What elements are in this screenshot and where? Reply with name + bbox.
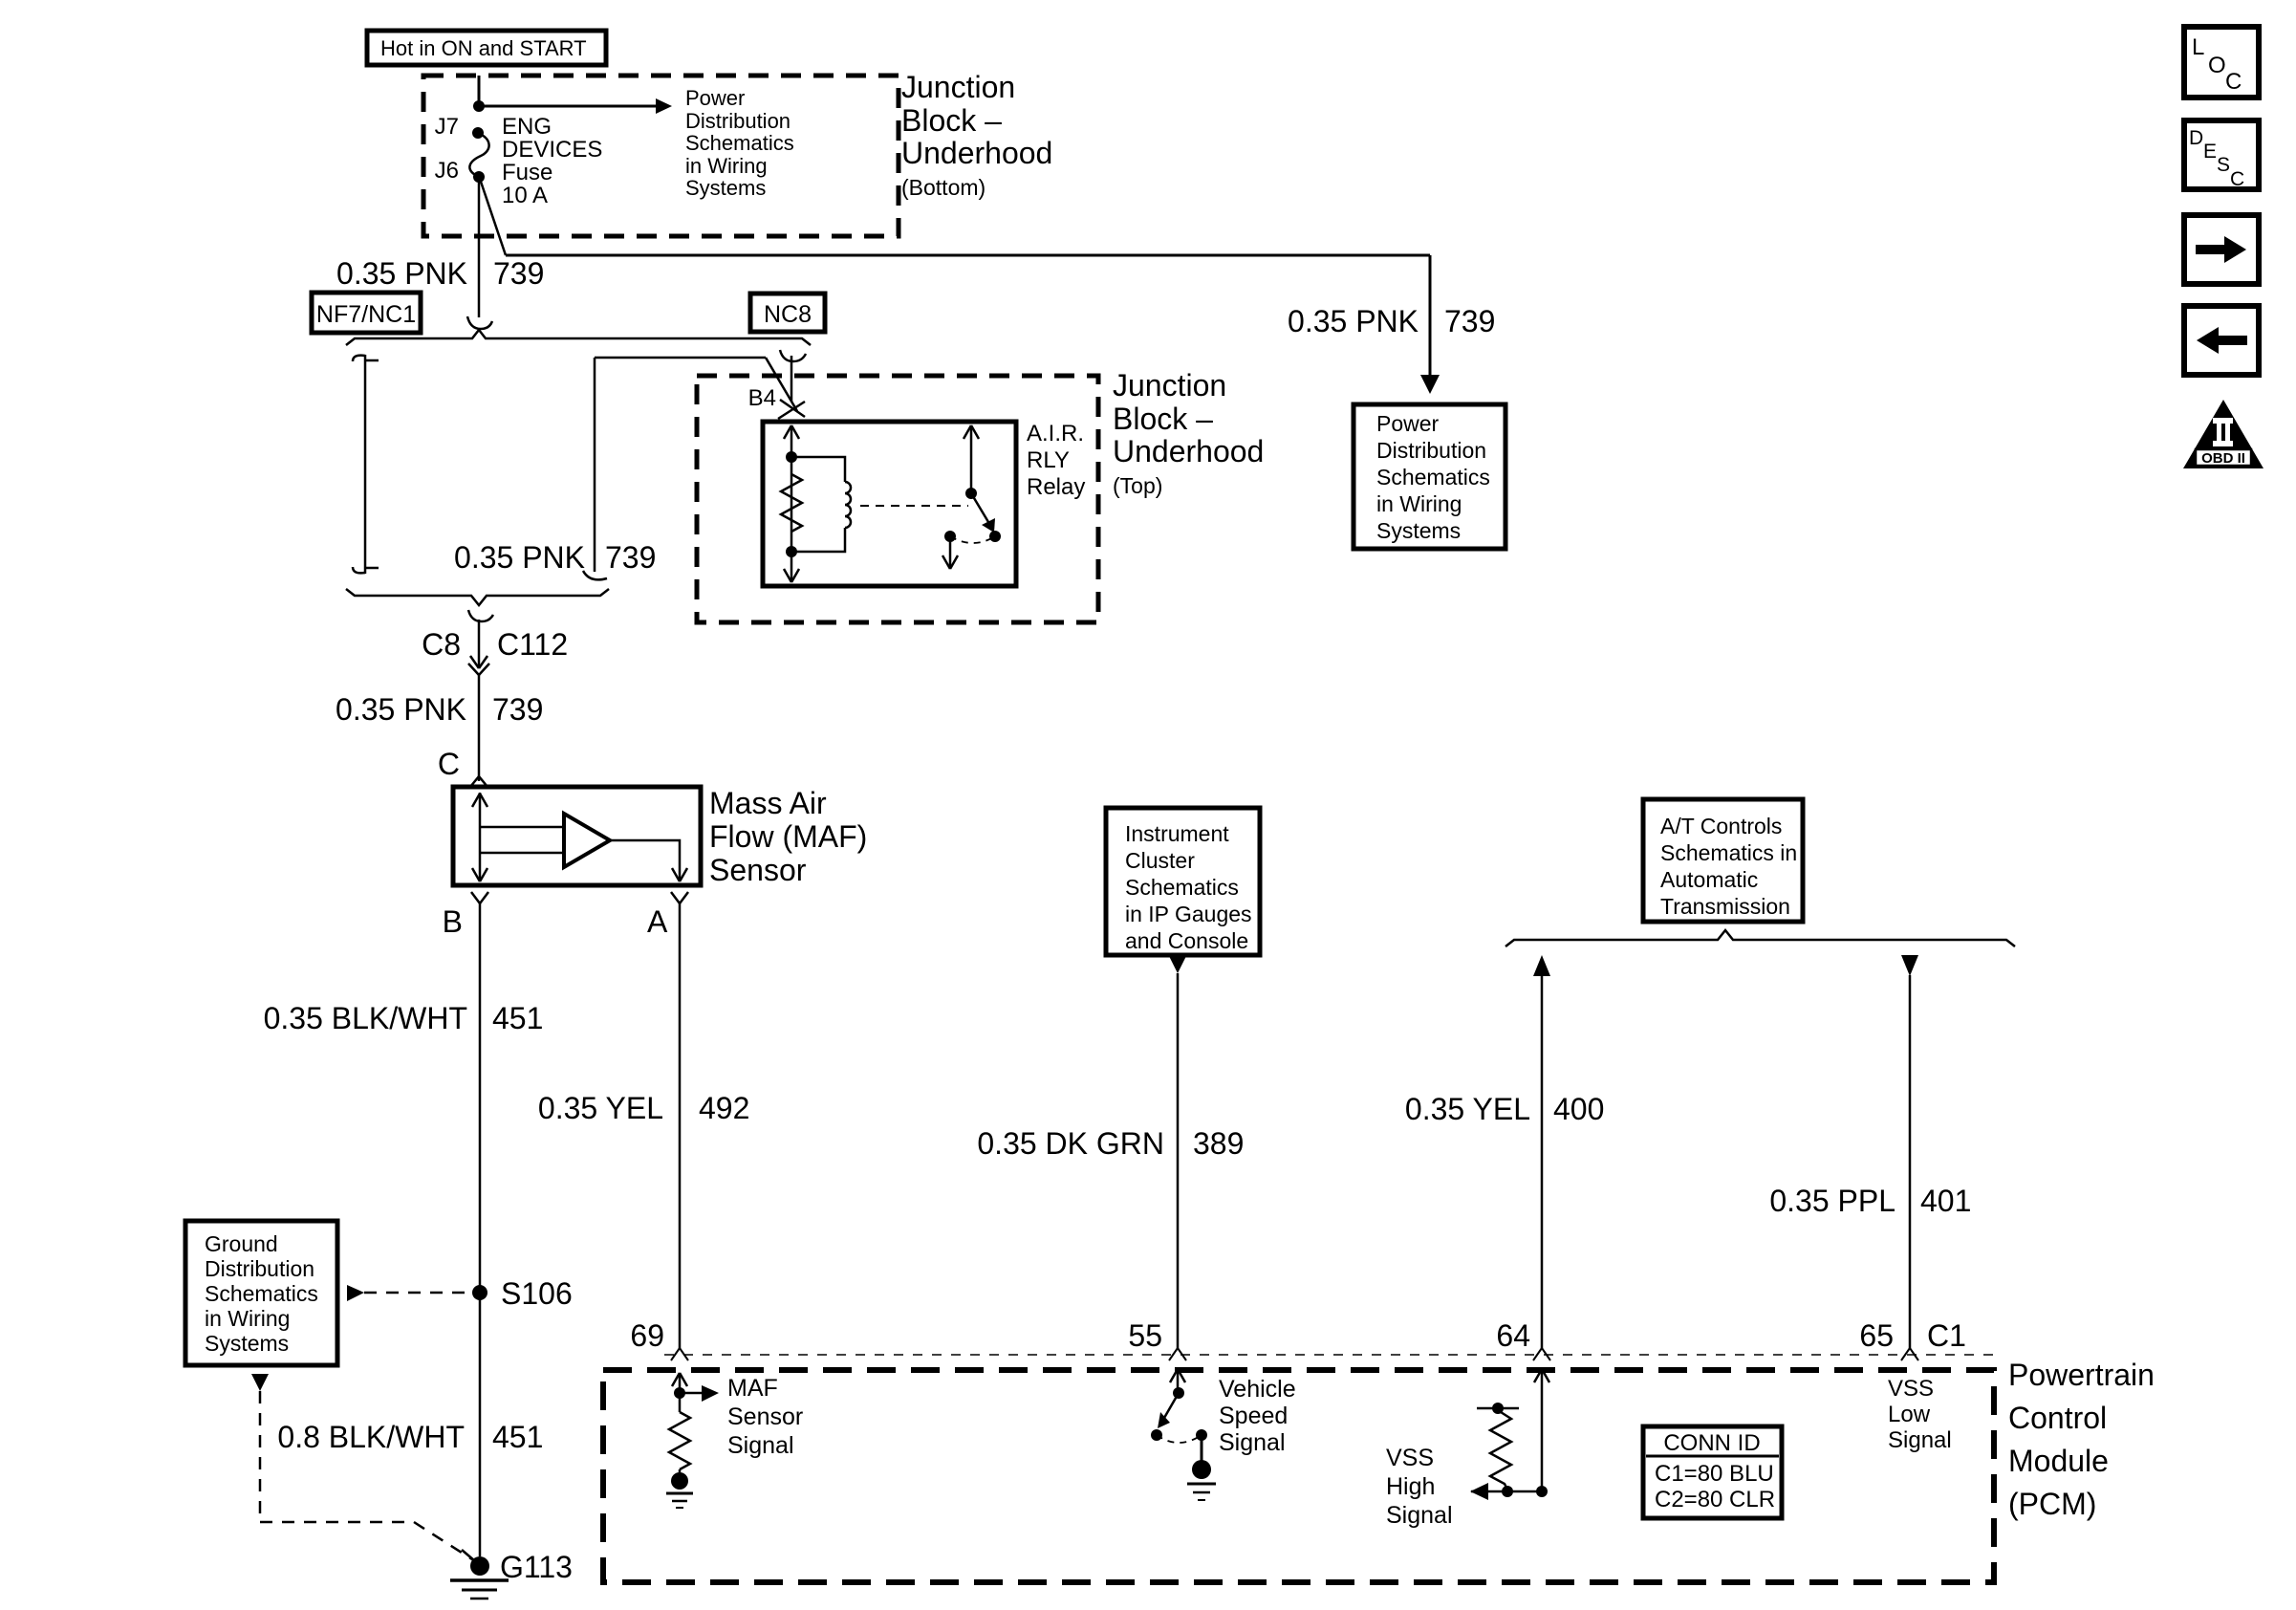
icon arrow right [2184, 215, 2259, 284]
op-amp U1 inside MAF [564, 814, 610, 867]
vehicle speed signal switch inside PCM [1151, 1369, 1207, 1461]
connector hook at end of wire 739 [467, 316, 492, 329]
svg-text:A/T Controls: A/T Controls [1660, 814, 1782, 838]
svg-text:O: O [2208, 53, 2226, 78]
label Junction Block - Underhood (Bottom) [901, 70, 1052, 200]
svg-text:Schematics: Schematics [205, 1281, 318, 1306]
svg-text:55: 55 [1128, 1318, 1162, 1353]
svg-text:ENG: ENG [502, 114, 552, 140]
svg-text:A.I.R.: A.I.R. [1027, 421, 1084, 446]
svg-text:401: 401 [1920, 1184, 1971, 1218]
svg-text:0.35 BLK/WHT: 0.35 BLK/WHT [264, 1001, 467, 1035]
icon DESC [2184, 120, 2259, 190]
svg-text:E: E [2203, 141, 2217, 163]
svg-text:0.8 BLK/WHT: 0.8 BLK/WHT [277, 1420, 465, 1454]
label VSS High Signal [1386, 1445, 1453, 1529]
svg-text:D: D [2189, 127, 2203, 149]
wire 401 VSS low to A/T controls [1901, 955, 1918, 1348]
svg-text:Low: Low [1888, 1402, 1931, 1427]
relay actuation dashed link [860, 505, 968, 507]
svg-text:0.35 DK GRN: 0.35 DK GRN [977, 1126, 1164, 1161]
svg-text:(Bottom): (Bottom) [901, 175, 986, 200]
reference box instrument cluster schematics [1106, 808, 1260, 955]
wire horizontal run 739 to right [506, 254, 1430, 257]
node junction dot [473, 100, 485, 112]
svg-text:739: 739 [492, 692, 543, 727]
wire label 0.35 PNK 739 (left) [336, 256, 544, 291]
wire 492 from pin A down to PCM pin 69 [679, 903, 682, 1348]
svg-text:Module: Module [2008, 1444, 2109, 1478]
svg-text:S: S [2217, 154, 2230, 176]
svg-text:Control: Control [2008, 1401, 2107, 1435]
svg-text:Systems: Systems [1376, 518, 1461, 543]
svg-text:389: 389 [1193, 1126, 1244, 1161]
svg-text:0.35 PPL: 0.35 PPL [1769, 1184, 1895, 1218]
svg-text:Schematics: Schematics [685, 131, 794, 155]
label Powertrain Control Module (PCM) [2008, 1358, 2155, 1521]
svg-text:C112: C112 [497, 627, 568, 662]
brace connector fan-in to C112 [346, 589, 609, 605]
pin 64 connector chevron [1496, 1318, 1550, 1360]
pin C [438, 747, 487, 787]
svg-text:C: C [2225, 69, 2242, 95]
svg-text:0.35 PNK: 0.35 PNK [336, 256, 467, 291]
wire diagonal into pin B4 [766, 358, 797, 411]
svg-text:MAF: MAF [727, 1375, 778, 1402]
svg-text:Block –: Block – [901, 103, 1002, 138]
junction block underhood (top) dashed box [697, 376, 1098, 622]
icon OBD II triangle [2183, 400, 2264, 468]
svg-text:DEVICES: DEVICES [502, 137, 602, 163]
resistor R-maf [669, 1412, 690, 1469]
VSS high signal circuit inside PCM [1470, 1369, 1549, 1500]
svg-text:J6: J6 [435, 158, 459, 184]
svg-text:VSS: VSS [1386, 1445, 1434, 1471]
svg-text:492: 492 [699, 1091, 749, 1125]
pin J7 [435, 114, 484, 140]
PCM powertrain control module dashed box [603, 1370, 1994, 1582]
svg-text:0.35 PNK: 0.35 PNK [336, 692, 466, 727]
label Vehicle Speed Signal [1219, 1376, 1296, 1456]
svg-text:10 A: 10 A [502, 183, 548, 208]
svg-text:Power: Power [1376, 411, 1440, 436]
label VSS Low Signal [1888, 1376, 1952, 1453]
pin B [443, 892, 488, 939]
ground inside PCM (VSS) [1187, 1460, 1216, 1500]
wire from hot feed into junction block [478, 76, 481, 106]
svg-text:B: B [443, 904, 463, 939]
svg-text:Systems: Systems [685, 176, 766, 200]
label Junction Block - Underhood (Top) [1113, 368, 1264, 498]
svg-text:Underhood: Underhood [1113, 434, 1264, 468]
svg-text:0.35 PNK: 0.35 PNK [454, 540, 585, 575]
svg-text:C: C [2230, 168, 2244, 190]
svg-text:G113: G113 [500, 1550, 573, 1584]
dashed reference wire to splice S106 [347, 1285, 472, 1301]
MAF sensor signal input circuit inside PCM [672, 1373, 719, 1412]
svg-text:Flow (MAF): Flow (MAF) [709, 819, 867, 854]
MAF output wire [610, 840, 687, 881]
wire arrow to power distribution reference [479, 98, 672, 114]
wire label 0.8 BLK/WHT 451 [277, 1420, 543, 1454]
reference box power distribution schematics in wiring systems [1354, 404, 1505, 549]
svg-text:VSS: VSS [1888, 1376, 1934, 1402]
relay A.I.R. RLY box [763, 422, 1016, 586]
svg-text:Cluster: Cluster [1125, 848, 1195, 873]
connector label box NF7/NC1 [312, 293, 421, 333]
svg-text:Signal: Signal [727, 1432, 794, 1459]
junction block underhood (bottom) dashed box [423, 76, 899, 236]
svg-text:Schematics: Schematics [1125, 875, 1239, 900]
svg-text:in IP Gauges: in IP Gauges [1125, 902, 1252, 926]
wire 389 instrument cluster to PCM pin 55 [1169, 956, 1186, 1348]
CONN ID table [1643, 1426, 1782, 1518]
svg-text:Transmission: Transmission [1660, 894, 1790, 919]
connector C1 thin dashed line [664, 1354, 1994, 1356]
pin 69 connector chevron [630, 1318, 688, 1360]
svg-text:451: 451 [492, 1420, 543, 1454]
svg-text:Powertrain: Powertrain [2008, 1358, 2155, 1392]
wire 400 VSS high to A/T controls [1533, 955, 1550, 1348]
svg-text:Power: Power [685, 86, 745, 110]
svg-text:64: 64 [1496, 1318, 1530, 1353]
svg-text:in Wiring: in Wiring [685, 154, 768, 178]
svg-text:Junction: Junction [1113, 368, 1226, 402]
resistor inside relay [781, 474, 802, 532]
svg-text:Schematics: Schematics [1376, 465, 1490, 490]
svg-text:C1: C1 [1927, 1318, 1966, 1353]
svg-text:J7: J7 [435, 114, 459, 140]
svg-text:A: A [647, 904, 668, 939]
wire label 0.35 PNK 739 (middle) [454, 540, 656, 575]
pin B4 connector [748, 350, 806, 419]
svg-text:RLY: RLY [1027, 447, 1070, 473]
svg-text:Junction: Junction [901, 70, 1015, 104]
svg-text:Distribution: Distribution [205, 1256, 314, 1281]
svg-text:C: C [438, 747, 460, 781]
relay switch [942, 425, 1001, 569]
connector hook below brace [468, 610, 493, 621]
svg-text:Sensor: Sensor [709, 853, 807, 887]
svg-text:Schematics in: Schematics in [1660, 840, 1797, 865]
svg-text:NF7/NC1: NF7/NC1 [316, 301, 416, 328]
svg-text:(Top): (Top) [1113, 473, 1162, 498]
svg-text:High: High [1386, 1473, 1435, 1500]
svg-text:Distribution: Distribution [1376, 438, 1486, 463]
wire drop with arrow into power distribution box [1420, 255, 1440, 394]
svg-text:Distribution: Distribution [685, 109, 791, 133]
svg-text:Hot in ON and START: Hot in ON and START [380, 36, 587, 60]
label A.I.R. RLY Relay [1027, 421, 1085, 500]
svg-text:Speed: Speed [1219, 1403, 1288, 1429]
wire label 0.35 DK GRN 389 [977, 1126, 1244, 1161]
svg-text:0.35 PNK: 0.35 PNK [1288, 304, 1419, 338]
brace connector fan-out NF7/NC1 NC8 [346, 330, 811, 345]
wire label 0.35 YEL 400 [1405, 1092, 1604, 1126]
svg-text:739: 739 [1444, 304, 1495, 338]
svg-text:OBD II: OBD II [2201, 450, 2245, 467]
svg-text:Instrument: Instrument [1125, 821, 1229, 846]
MAF sensor internal circuit [472, 793, 564, 881]
reference box A/T controls schematics [1643, 799, 1803, 922]
svg-text:400: 400 [1553, 1092, 1604, 1126]
svg-text:C1=80 BLU: C1=80 BLU [1655, 1461, 1774, 1487]
svg-text:CONN ID: CONN ID [1663, 1430, 1760, 1456]
fuse ENG DEVICES 10A [469, 133, 488, 177]
svg-text:S106: S106 [501, 1276, 573, 1311]
wire label 0.35 PNK 739 (right) [1288, 304, 1495, 338]
wire 739 down to MAF sensor [478, 675, 481, 781]
reference box ground distribution schematics [185, 1221, 337, 1365]
svg-text:L: L [2192, 34, 2204, 60]
brace A/T controls fan-out [1505, 930, 2015, 946]
Mass Air Flow MAF sensor box [453, 787, 701, 885]
svg-text:Signal: Signal [1219, 1429, 1286, 1456]
svg-text:Vehicle: Vehicle [1219, 1376, 1296, 1403]
pin 65 connector chevron C1 [1859, 1318, 1966, 1360]
label Mass Air Flow (MAF) Sensor [709, 786, 867, 887]
wire label 0.35 YEL 492 [538, 1091, 749, 1125]
svg-text:Signal: Signal [1386, 1502, 1453, 1529]
svg-text:Sensor: Sensor [727, 1403, 803, 1430]
svg-text:NC8: NC8 [764, 301, 812, 328]
ground G113 [450, 1550, 573, 1599]
svg-text:Underhood: Underhood [901, 136, 1052, 170]
svg-text:451: 451 [492, 1001, 543, 1035]
icon arrow left [2184, 306, 2259, 375]
dashed ground reference path to G113 [251, 1374, 475, 1561]
svg-text:65: 65 [1859, 1318, 1894, 1353]
resistor R-vss [1477, 1403, 1519, 1497]
wire riser from NC8 branch [583, 358, 766, 579]
in-line connector C8 / C112 [422, 620, 568, 675]
svg-text:0.35 YEL: 0.35 YEL [1405, 1092, 1530, 1126]
svg-text:Relay: Relay [1027, 474, 1085, 500]
reference text power distribution schematics [685, 86, 794, 200]
pin A [647, 892, 688, 939]
svg-text:Mass Air: Mass Air [709, 786, 827, 820]
svg-text:739: 739 [605, 540, 656, 575]
svg-text:Signal: Signal [1888, 1427, 1952, 1453]
svg-text:69: 69 [630, 1318, 664, 1353]
wire label 0.35 PPL 401 [1769, 1184, 1971, 1218]
wire down from fuse J6 [478, 177, 481, 317]
ground inside PCM (MAF) [666, 1469, 693, 1508]
svg-text:in Wiring: in Wiring [205, 1306, 290, 1331]
svg-text:Ground: Ground [205, 1231, 278, 1256]
connector label box NC8 [750, 294, 825, 332]
svg-text:Block –: Block – [1113, 402, 1213, 436]
splice S106 [472, 1276, 573, 1311]
connector range bar NF7/NC1 [353, 355, 379, 574]
svg-text:B4: B4 [748, 385, 776, 411]
svg-text:Systems: Systems [205, 1331, 289, 1356]
svg-text:and Console: and Console [1125, 928, 1248, 953]
wire 451 from pin B down to G113 [479, 903, 482, 1556]
pin J6 [435, 158, 485, 184]
wire label 0.35 PNK 739 (lower) [336, 692, 543, 727]
svg-text:C2=80 CLR: C2=80 CLR [1655, 1487, 1775, 1512]
svg-text:(PCM): (PCM) [2008, 1487, 2096, 1521]
svg-text:739: 739 [493, 256, 544, 291]
svg-text:Automatic: Automatic [1660, 867, 1758, 892]
svg-text:C8: C8 [422, 627, 461, 662]
label box "Hot in ON and START" [367, 31, 606, 65]
relay coil side pin line [784, 425, 799, 582]
wire label 0.35 BLK/WHT 451 [264, 1001, 544, 1035]
icon LOC [2184, 27, 2259, 98]
svg-text:0.35 YEL: 0.35 YEL [538, 1091, 663, 1125]
svg-text:Fuse: Fuse [502, 160, 552, 185]
wire diagonal feed to right run [481, 182, 506, 255]
pin 55 connector chevron [1128, 1318, 1186, 1360]
svg-text:in Wiring: in Wiring [1376, 491, 1462, 516]
relay coil winding [791, 457, 851, 552]
fuse value label [502, 114, 602, 208]
label MAF Sensor Signal [727, 1375, 803, 1459]
